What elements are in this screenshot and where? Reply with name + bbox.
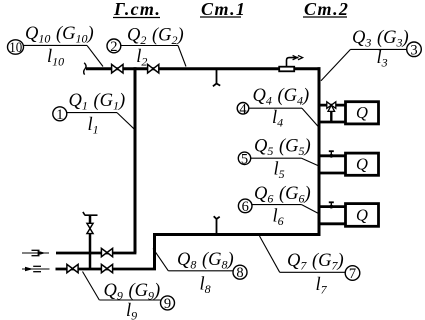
wire: top main pipe: [86, 67, 321, 70]
pipe break mark at left end of top main: [84, 63, 86, 75]
wire: left riser: [134, 67, 137, 253]
box2 top stub: [319, 154, 346, 157]
svg-text:7: 7: [349, 266, 356, 282]
node 6 label: [238, 184, 318, 228]
svg-text:4: 4: [239, 101, 247, 117]
svg-text:10: 10: [9, 40, 22, 56]
node 2 label: [107, 25, 186, 68]
wire: S-bend vertical: [153, 233, 156, 269]
three-way valve on box1 stub: [327, 102, 336, 112]
wire: lower supply pipe: [56, 268, 157, 271]
box1 bottom stub: [319, 121, 346, 124]
purge stack below top main: [213, 70, 220, 86]
node 5 label: [238, 137, 320, 181]
node 4 label: [237, 86, 319, 130]
node 10 label: [8, 24, 104, 68]
consumer box 2: [346, 153, 379, 175]
svg-text:8: 8: [236, 265, 243, 281]
svg-text:Ст.1: Ст.1: [201, 0, 246, 19]
valve (vertical) on vent riser: [87, 223, 93, 233]
svg-text:Г.ст.: Г.ст.: [113, 0, 161, 19]
box1 drop pipe: [330, 110, 332, 122]
header Ст.1: [200, 0, 246, 19]
node 7 label: [260, 236, 360, 297]
node 3 label: [321, 28, 421, 81]
node 1 label: [53, 91, 135, 137]
wire: vent riser: [89, 216, 92, 223]
consumer box 3: [346, 204, 379, 227]
wire: upper supply pipe: [56, 252, 136, 255]
valve on upper supply: [101, 248, 112, 256]
valve V1 on top main: [112, 64, 123, 73]
vent cap: [83, 212, 98, 215]
svg-text:5: 5: [241, 151, 248, 167]
svg-text:1: 1: [56, 107, 63, 123]
inlet arrow upper supply: [22, 250, 49, 255]
consumer box 1: [346, 102, 379, 124]
valve 2 on lower supply: [101, 264, 112, 272]
node 9 label: [83, 272, 175, 320]
svg-text:Q: Q: [356, 154, 368, 173]
wire: bottom main pipe: [153, 233, 321, 236]
plug valve on box3 stub: [329, 202, 334, 208]
inlet arrow lower supply: [22, 266, 50, 271]
node 8 label: [153, 249, 247, 297]
box1 top stub: [319, 104, 346, 107]
valve 1 on lower supply: [67, 264, 78, 272]
wire: right riser: [318, 67, 321, 236]
header Г.ст.: [113, 0, 161, 19]
box3 bottom stub: [319, 222, 346, 225]
svg-text:Ст.2: Ст.2: [304, 0, 349, 19]
plug valve on box2 stub: [329, 151, 334, 158]
svg-text:Q: Q: [356, 205, 368, 224]
svg-text:Q: Q: [356, 103, 368, 122]
valve V2 on top main: [148, 64, 159, 73]
svg-text:6: 6: [242, 199, 249, 215]
wire: supply cross connector: [89, 253, 92, 269]
svg-text:3: 3: [410, 42, 417, 58]
svg-text:2: 2: [110, 39, 117, 55]
header Ст.2: [303, 0, 349, 19]
regulator on top main: [279, 55, 302, 71]
box3 top stub: [319, 205, 346, 208]
purge stack above bottom main: [214, 216, 220, 233]
svg-text:9: 9: [164, 296, 171, 312]
box2 bottom stub: [319, 172, 346, 175]
